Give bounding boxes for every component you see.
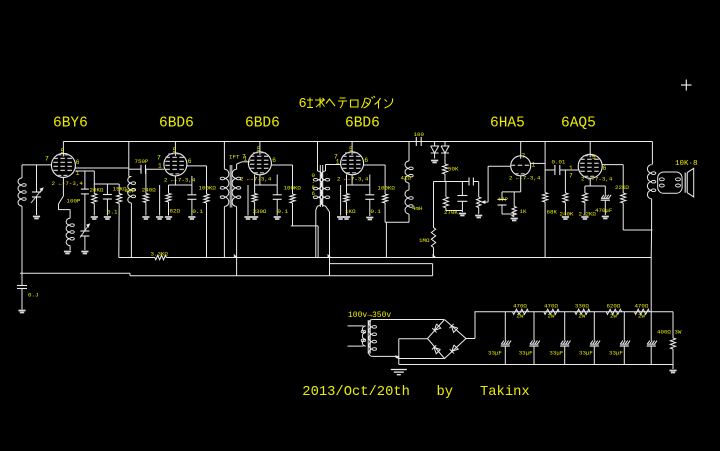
svg-text:400Ω 3W: 400Ω 3W	[657, 329, 682, 336]
svg-text:6: 6	[299, 97, 307, 112]
svg-text:3.3KΩ: 3.3KΩ	[151, 251, 169, 258]
svg-text:240Ω: 240Ω	[142, 187, 156, 194]
svg-text:33μF: 33μF	[488, 350, 502, 357]
svg-text:330Ω: 330Ω	[253, 208, 267, 215]
svg-text:100KΩ: 100KΩ	[199, 185, 217, 192]
svg-text:2W: 2W	[548, 313, 555, 320]
svg-text:2 ←-7-3,4: 2 ←-7-3,4	[52, 180, 84, 187]
svg-text:0.J: 0.J	[28, 292, 38, 299]
svg-text:0.1: 0.1	[371, 208, 382, 215]
svg-text:2.2KΩ: 2.2KΩ	[579, 211, 597, 218]
svg-text:0.1: 0.1	[107, 209, 118, 216]
svg-text:6BD6: 6BD6	[245, 116, 280, 132]
svg-text:41Ω: 41Ω	[401, 175, 412, 182]
svg-text:2 ←-7-3,4: 2 ←-7-3,4	[509, 175, 541, 182]
svg-text:5: 5	[349, 146, 353, 153]
svg-text:50K: 50K	[448, 166, 459, 173]
svg-text:1KΩ: 1KΩ	[345, 208, 356, 215]
svg-text:33μF: 33μF	[579, 350, 593, 357]
svg-text:5: 5	[592, 154, 596, 161]
svg-text:6: 6	[272, 157, 276, 164]
svg-text:22KΩ: 22KΩ	[615, 184, 629, 191]
svg-text:1: 1	[532, 162, 536, 169]
svg-text:6BY6: 6BY6	[53, 116, 88, 132]
svg-text:6: 6	[76, 159, 80, 166]
svg-text:2 ←-7-3,4: 2 ←-7-3,4	[240, 176, 272, 183]
svg-text:5: 5	[257, 146, 261, 153]
svg-text:5: 5	[61, 148, 65, 155]
svg-text:4mH: 4mH	[412, 205, 423, 212]
svg-text:470Ω: 470Ω	[513, 303, 527, 310]
svg-text:750P: 750P	[135, 158, 149, 165]
svg-text:7: 7	[522, 153, 526, 160]
svg-text:47P: 47P	[498, 196, 509, 203]
svg-text:20KΩ: 20KΩ	[90, 187, 104, 194]
svg-text:2 ←-7-3,4: 2 ←-7-3,4	[581, 176, 613, 183]
svg-text:1: 1	[244, 156, 248, 163]
svg-text:1MΩ: 1MΩ	[419, 237, 430, 244]
svg-text:40P: 40P	[125, 188, 136, 195]
svg-text:33μF: 33μF	[609, 350, 623, 357]
svg-text:2W: 2W	[610, 313, 617, 320]
svg-text:1: 1	[569, 165, 573, 172]
svg-text:2W: 2W	[638, 313, 645, 320]
svg-text:Takinx: Takinx	[480, 384, 530, 400]
svg-text:240K: 240K	[560, 211, 574, 218]
svg-text:0.1: 0.1	[278, 208, 289, 215]
svg-text:2W: 2W	[578, 313, 585, 320]
svg-text:IFT: IFT	[229, 154, 240, 161]
svg-text:6: 6	[312, 190, 316, 197]
svg-text:470Ω: 470Ω	[544, 303, 558, 310]
svg-text:100KΩ: 100KΩ	[378, 185, 396, 192]
svg-text:33μF: 33μF	[549, 350, 563, 357]
svg-text:33μF: 33μF	[519, 350, 533, 357]
svg-text:6BD6: 6BD6	[345, 116, 380, 132]
svg-text:1: 1	[336, 159, 340, 166]
svg-text:470μF: 470μF	[595, 207, 613, 214]
svg-text:7: 7	[45, 156, 49, 163]
svg-text:100P: 100P	[67, 198, 81, 205]
svg-text:68K: 68K	[547, 209, 558, 216]
svg-text:6: 6	[603, 165, 607, 172]
svg-text:100v→350v: 100v→350v	[348, 311, 391, 320]
svg-text:270K: 270K	[444, 209, 458, 216]
svg-text:470Ω: 470Ω	[634, 303, 648, 310]
svg-text:620Ω: 620Ω	[606, 303, 620, 310]
svg-text:6HA5: 6HA5	[490, 116, 525, 132]
svg-text:2013/Oct/20th: 2013/Oct/20th	[302, 384, 410, 400]
svg-text:82Ω: 82Ω	[170, 208, 181, 215]
svg-text:100: 100	[414, 131, 425, 138]
svg-text:2W: 2W	[517, 313, 524, 320]
svg-text:330Ω: 330Ω	[575, 303, 589, 310]
svg-text:0.1: 0.1	[193, 208, 204, 215]
svg-text:6: 6	[188, 158, 192, 165]
svg-text:5: 5	[173, 147, 177, 154]
svg-text:100KΩ: 100KΩ	[284, 185, 302, 192]
svg-text:6BD6: 6BD6	[159, 116, 194, 132]
svg-text:7: 7	[569, 173, 573, 180]
svg-text:2 ←-7-3,4: 2 ←-7-3,4	[164, 177, 196, 184]
svg-text:by: by	[437, 384, 454, 400]
svg-text:1K: 1K	[520, 208, 527, 215]
svg-text:2 ←-7-3,4: 2 ←-7-3,4	[337, 176, 369, 183]
svg-text:10K·8: 10K·8	[675, 160, 698, 168]
svg-text:6: 6	[364, 157, 368, 164]
svg-text:1: 1	[158, 163, 162, 170]
svg-text:6AQ5: 6AQ5	[561, 116, 596, 132]
svg-text:7: 7	[157, 155, 161, 162]
svg-text:0.01: 0.01	[552, 159, 566, 166]
